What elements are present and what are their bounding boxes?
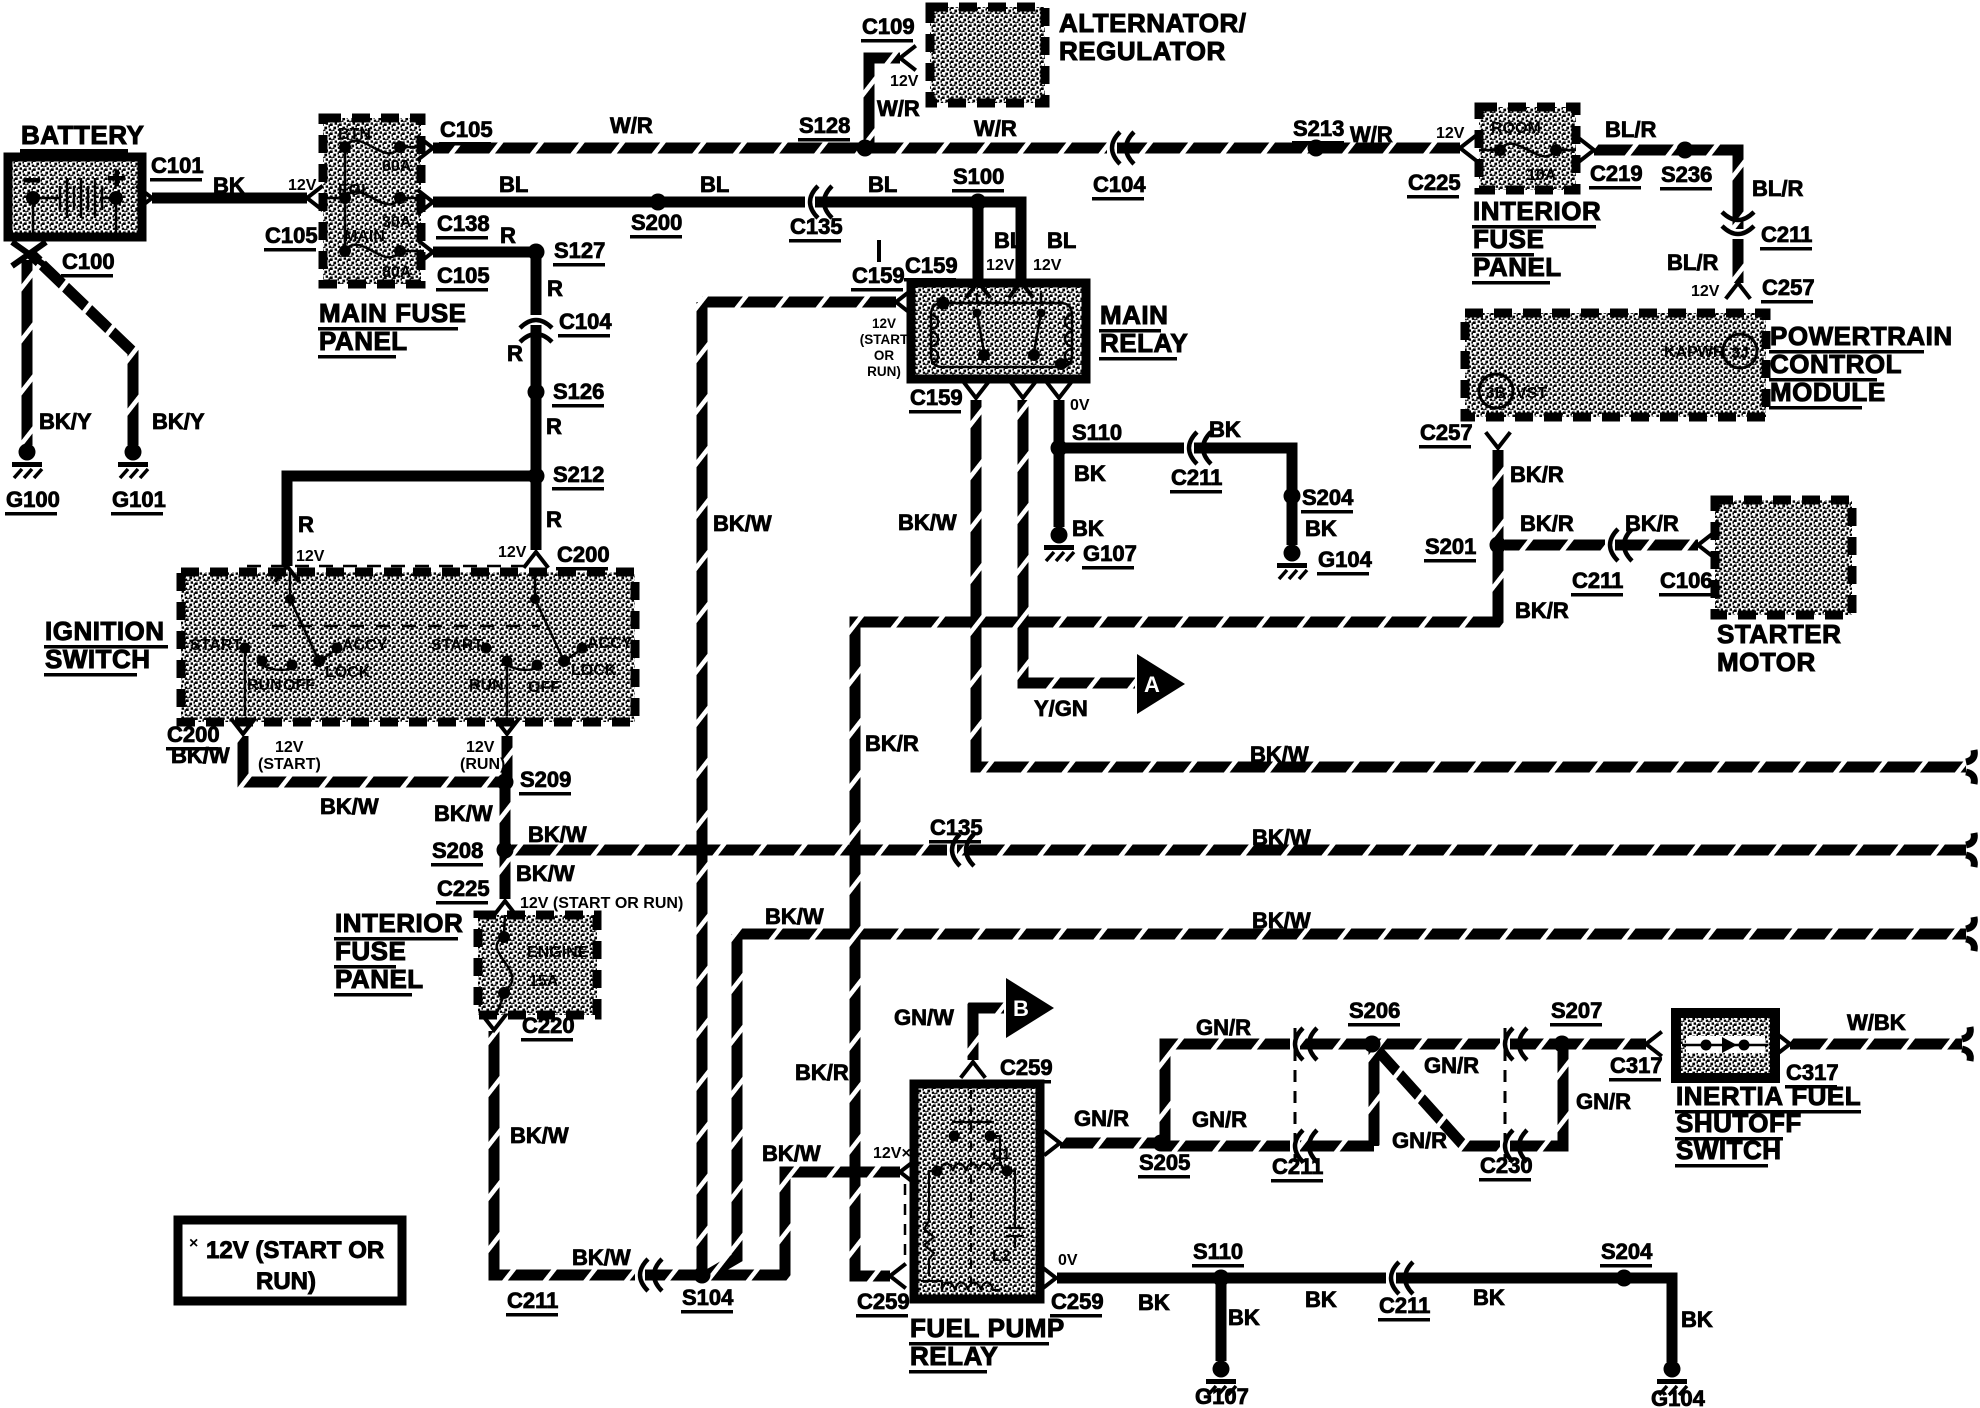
svg-text:BL: BL [700,172,729,197]
svg-text:W/R: W/R [610,113,653,138]
svg-text:C257: C257 [1420,420,1473,445]
svg-text:FUSE: FUSE [1473,224,1544,254]
svg-text:30A: 30A [382,214,412,231]
svg-text:B: B [1013,996,1029,1021]
svg-text:12V: 12V [1033,257,1062,274]
svg-text:RUN: RUN [247,677,282,694]
svg-text:C211: C211 [1379,1293,1430,1318]
svg-text:C259: C259 [1000,1055,1053,1080]
svg-text:(RUN): (RUN) [460,756,505,773]
svg-text:80A: 80A [382,264,412,281]
svg-text:BK/W: BK/W [765,904,824,929]
svg-text:12V: 12V [498,544,527,561]
svg-text:S128: S128 [799,113,850,138]
svg-text:12V (START OR: 12V (START OR [206,1237,384,1264]
svg-text:C220: C220 [522,1013,575,1038]
svg-text:EGI: EGI [338,182,366,199]
svg-text:C105: C105 [265,223,318,248]
svg-text:SWITCH: SWITCH [1676,1135,1782,1165]
svg-text:BK/W: BK/W [762,1141,821,1166]
svg-text:GN/W: GN/W [894,1005,954,1030]
svg-text:BATTERY: BATTERY [21,120,144,150]
svg-text:BL: BL [868,172,897,197]
svg-text:BK/W: BK/W [320,794,379,819]
svg-text:R: R [298,512,314,537]
svg-text:C101: C101 [151,153,204,178]
svg-text:REGULATOR: REGULATOR [1059,36,1226,66]
svg-text:12V: 12V [1691,283,1720,300]
svg-text:RUN): RUN) [256,1268,316,1295]
svg-text:L2: L2 [992,1248,1011,1265]
svg-text:BK/W: BK/W [1252,825,1311,850]
svg-text:BK: BK [1209,417,1241,442]
svg-text:C211: C211 [1572,568,1623,593]
svg-text:12V: 12V [466,739,495,756]
svg-text:BK: BK [1305,516,1337,541]
svg-text:C105: C105 [440,117,493,142]
svg-text:G104: G104 [1318,547,1373,572]
svg-text:C211: C211 [1171,465,1222,490]
svg-text:BL: BL [499,172,528,197]
svg-text:15A: 15A [529,973,559,990]
svg-text:BK: BK [1138,1290,1170,1315]
svg-text:CONTROL: CONTROL [1770,349,1902,379]
svg-text:LOCK: LOCK [571,662,617,679]
svg-text:S201: S201 [1425,534,1476,559]
svg-text:R: R [500,223,516,248]
svg-text:C138: C138 [437,211,490,236]
svg-text:BK: BK [1228,1305,1260,1330]
svg-text:BL: BL [994,228,1023,253]
svg-text:S204: S204 [1601,1239,1653,1264]
svg-text:BK: BK [1072,516,1104,541]
svg-text:3J: 3J [1731,345,1749,362]
svg-text:SWITCH: SWITCH [45,644,151,674]
svg-text:C259: C259 [1051,1289,1104,1314]
svg-text:BK/Y: BK/Y [39,409,92,434]
svg-text:GN/R: GN/R [1192,1107,1247,1132]
svg-text:BL/R: BL/R [1752,176,1803,201]
svg-text:C219: C219 [1590,161,1643,186]
svg-text:BK: BK [1681,1307,1713,1332]
svg-text:(START: (START [860,332,909,347]
svg-text:BK: BK [1074,461,1106,486]
svg-text:BK/W: BK/W [1252,908,1311,933]
svg-text:BK/R: BK/R [1625,511,1679,536]
svg-text:FUEL PUMP: FUEL PUMP [910,1313,1065,1343]
svg-text:S126: S126 [553,379,604,404]
svg-text:PANEL: PANEL [1473,252,1562,282]
svg-text:C259: C259 [857,1289,910,1314]
svg-text:BK/W: BK/W [713,511,772,536]
svg-text:BL/R: BL/R [1667,250,1718,275]
svg-text:LOCK: LOCK [325,664,371,681]
svg-text:S212: S212 [553,462,604,487]
svg-text:W/BK: W/BK [1847,1010,1906,1035]
svg-text:BK/W: BK/W [516,861,575,886]
svg-text:C106: C106 [1660,568,1713,593]
svg-text:RELAY: RELAY [910,1341,998,1371]
svg-text:OFF: OFF [528,679,560,696]
svg-text:S205: S205 [1139,1150,1190,1175]
svg-text:C100: C100 [62,249,115,274]
svg-text:ROOM: ROOM [1491,120,1541,137]
svg-text:12V (START OR RUN): 12V (START OR RUN) [520,895,683,912]
svg-text:C317: C317 [1786,1060,1839,1085]
svg-text:G107: G107 [1083,541,1137,566]
svg-text:C230: C230 [1480,1153,1533,1178]
svg-text:×: × [189,1235,198,1252]
svg-text:BK: BK [1305,1287,1337,1312]
svg-text:START: START [190,637,242,654]
svg-text:12V: 12V [986,257,1015,274]
svg-text:BK: BK [1473,1285,1505,1310]
svg-text:BK/R: BK/R [1515,598,1569,623]
svg-text:IGNITION: IGNITION [45,616,165,646]
svg-text:C317: C317 [1610,1053,1663,1078]
svg-text:MAIN: MAIN [344,228,385,245]
svg-text:10A: 10A [1527,167,1557,184]
svg-text:STARTER: STARTER [1717,619,1841,649]
svg-text:S200: S200 [631,210,682,235]
svg-text:G100: G100 [6,487,60,512]
svg-text:POWERTRAIN: POWERTRAIN [1770,321,1953,351]
svg-text:C104: C104 [1093,172,1146,197]
svg-text:OFF: OFF [283,677,315,694]
svg-text:S104: S104 [682,1285,734,1310]
svg-text:0V: 0V [1070,397,1090,414]
svg-text:W/R: W/R [877,96,920,121]
svg-text:MAIN: MAIN [1100,300,1168,330]
svg-text:FUSE: FUSE [335,936,406,966]
svg-text:G107: G107 [1195,1384,1249,1408]
svg-text:GN/R: GN/R [1424,1053,1479,1078]
svg-text:C105: C105 [437,263,490,288]
svg-text:BK/W: BK/W [528,822,587,847]
svg-text:C200: C200 [557,542,610,567]
svg-text:A: A [1144,672,1160,697]
svg-text:BK/R: BK/R [1510,462,1564,487]
svg-text:GN/R: GN/R [1074,1106,1129,1131]
svg-text:G101: G101 [112,487,166,512]
svg-text:INTERIOR: INTERIOR [335,908,463,938]
svg-text:RUN: RUN [469,677,504,694]
svg-text:3B: 3B [1486,385,1506,402]
svg-text:BK/W: BK/W [434,801,493,826]
svg-text:S206: S206 [1349,998,1400,1023]
svg-text:VST: VST [1516,385,1547,402]
svg-text:(START): (START) [258,756,321,773]
svg-text:ACCY: ACCY [587,635,633,652]
svg-text:12V×: 12V× [873,1145,911,1162]
svg-text:S236: S236 [1661,162,1712,187]
svg-text:ALTERNATOR/: ALTERNATOR/ [1059,8,1247,38]
svg-text:Y/GN: Y/GN [1034,696,1088,721]
svg-text:KAPWR: KAPWR [1664,344,1725,361]
svg-text:GN/R: GN/R [1196,1015,1251,1040]
svg-text:GN/R: GN/R [1576,1089,1631,1114]
svg-text:S110: S110 [1072,420,1122,445]
svg-text:C159: C159 [910,385,963,410]
svg-text:ACCY: ACCY [342,637,388,654]
svg-text:C211: C211 [1272,1154,1323,1179]
svg-text:R: R [507,341,523,366]
svg-text:BK/W: BK/W [1250,742,1309,767]
svg-text:MAIN FUSE: MAIN FUSE [319,298,467,328]
svg-text:R: R [546,507,562,532]
svg-text:12V: 12V [288,177,317,194]
svg-text:12V: 12V [275,739,304,756]
svg-text:OR: OR [874,348,895,363]
svg-text:BK/Y: BK/Y [152,409,205,434]
svg-text:C159: C159 [905,253,958,278]
svg-text:C109: C109 [862,14,915,39]
svg-text:W/R: W/R [974,116,1017,141]
svg-text:S127: S127 [554,238,605,263]
svg-text:12V: 12V [872,316,896,331]
svg-text:BK/W: BK/W [898,510,957,535]
svg-text:MOTOR: MOTOR [1717,647,1816,677]
svg-text:S100: S100 [953,164,1004,189]
svg-text:MODULE: MODULE [1770,377,1886,407]
svg-text:BK/W: BK/W [572,1245,631,1270]
svg-text:60A: 60A [382,158,412,175]
svg-text:C135: C135 [930,815,983,840]
svg-text:S207: S207 [1551,998,1602,1023]
svg-text:C211: C211 [507,1288,558,1313]
svg-text:BK/R: BK/R [865,731,919,756]
svg-text:S204: S204 [1302,485,1354,510]
svg-text:SHUTOFF: SHUTOFF [1676,1108,1802,1138]
svg-text:12V: 12V [1436,125,1465,142]
svg-text:C225: C225 [1408,170,1461,195]
svg-text:12V: 12V [296,548,325,565]
svg-text:C257: C257 [1762,275,1815,300]
svg-text:C135: C135 [790,214,843,239]
svg-text:START: START [431,637,483,654]
svg-text:GN/R: GN/R [1392,1128,1447,1153]
svg-text:BK: BK [213,173,245,198]
svg-text:S209: S209 [520,767,571,792]
svg-text:C211: C211 [1761,222,1812,247]
svg-text:0V: 0V [1058,1252,1078,1269]
svg-text:BK/W: BK/W [510,1123,569,1148]
svg-text:C104: C104 [559,309,612,334]
svg-text:BK/R: BK/R [1520,511,1574,536]
svg-text:RUN): RUN) [867,364,901,379]
svg-text:12V: 12V [890,73,919,90]
svg-text:BL/R: BL/R [1605,117,1656,142]
svg-text:BL: BL [1047,228,1076,253]
svg-text:W/R: W/R [1350,122,1393,147]
svg-text:S110: S110 [1193,1239,1243,1264]
svg-text:R: R [546,414,562,439]
svg-text:PANEL: PANEL [335,964,424,994]
svg-text:C225: C225 [437,876,490,901]
svg-text:R: R [547,276,563,301]
svg-text:ENGINE: ENGINE [527,944,589,961]
svg-text:S208: S208 [432,838,483,863]
svg-text:RELAY: RELAY [1100,328,1188,358]
svg-text:INTERIOR: INTERIOR [1473,196,1601,226]
svg-text:L1: L1 [992,1146,1011,1163]
svg-text:BK/R: BK/R [795,1060,849,1085]
svg-text:BTN: BTN [338,126,371,143]
svg-text:G104: G104 [1651,1386,1706,1408]
svg-text:C159: C159 [852,263,905,288]
svg-text:S213: S213 [1293,116,1344,141]
svg-text:PANEL: PANEL [319,326,408,356]
svg-text:BK/W: BK/W [171,743,230,768]
